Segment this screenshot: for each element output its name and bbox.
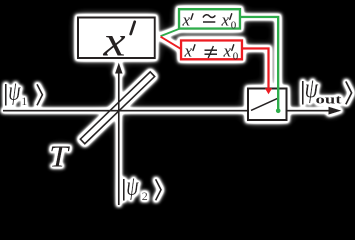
- svg-text:x: x: [221, 10, 230, 29]
- svg-text:x: x: [182, 10, 191, 29]
- svg-text:T: T: [49, 140, 71, 174]
- svg-text:ψ: ψ: [8, 76, 21, 105]
- svg-text:ψ: ψ: [126, 171, 139, 200]
- svg-text:0: 0: [233, 50, 239, 62]
- svg-text:out: out: [316, 92, 343, 107]
- svg-text:0: 0: [231, 19, 237, 31]
- svg-text:x: x: [184, 41, 193, 60]
- svg-text:x: x: [102, 18, 126, 65]
- svg-text:1: 1: [21, 94, 27, 108]
- svg-text:2: 2: [142, 189, 148, 203]
- svg-text:x: x: [223, 41, 232, 60]
